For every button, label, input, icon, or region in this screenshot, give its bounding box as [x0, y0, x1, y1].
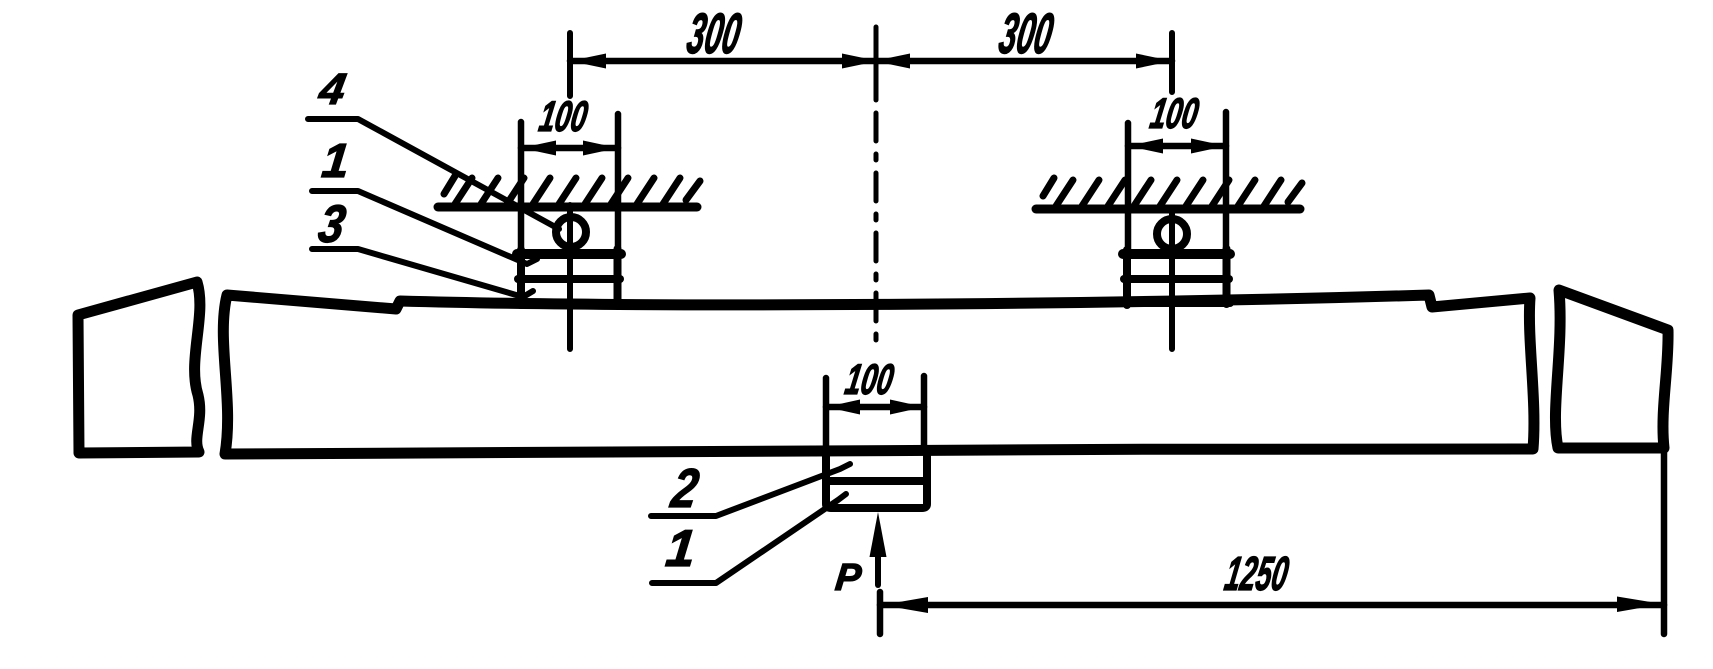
svg-text:100: 100 [536, 93, 591, 141]
dimension 1250 left tick [877, 592, 884, 634]
svg-text:100: 100 [842, 356, 897, 404]
svg-text:P: P [833, 557, 863, 599]
beam right broken-off piece [1555, 290, 1668, 448]
label 1 bottom underline and leader to bottom plate [652, 494, 846, 583]
right support hatching [1043, 178, 1302, 206]
bottom 100 extension lines [826, 376, 924, 447]
dimension 300 left arrowheads [570, 54, 878, 69]
label 2 underline and leader to bottom pad [651, 464, 850, 516]
left support ground line [438, 203, 697, 212]
svg-text:100: 100 [1147, 90, 1202, 138]
dimension 300 right line [876, 58, 1172, 65]
dimension 1250 arrowheads [882, 597, 1663, 614]
right roller [1157, 219, 1187, 249]
label 4 underline and leader to roller [308, 119, 559, 229]
svg-text:1: 1 [320, 134, 352, 188]
dimension 1250 line [880, 602, 1664, 609]
right pad 100 arrowheads [1128, 139, 1226, 154]
left support centerline [567, 33, 573, 349]
left support hatching [444, 176, 700, 204]
svg-text:1250: 1250 [1221, 547, 1293, 601]
beam left broken-off piece [78, 282, 200, 453]
left pad plates [517, 249, 621, 305]
right pad plates [1123, 249, 1230, 305]
right support ground line [1036, 205, 1300, 214]
right support centerline [1169, 33, 1175, 349]
bottom 100 arrowheads [826, 400, 924, 415]
label 1 underline and leader to pad [312, 191, 537, 264]
bottom pad outline [826, 449, 927, 508]
left roller [556, 217, 586, 247]
main beam body [223, 295, 1534, 454]
center axis dash-dot line [874, 27, 879, 100]
left pad 100 arrowheads [521, 141, 618, 156]
bottom 100 dimension line [826, 404, 924, 411]
left pad 100 dimension line [521, 145, 618, 152]
force P arrowhead [870, 512, 887, 557]
right pad 100 extension lines [1128, 112, 1226, 250]
bottom pad divider [827, 477, 927, 485]
label 3 underline and leader to beam [312, 249, 533, 297]
right pad 100 dimension line [1128, 143, 1226, 150]
dimension 300 right arrowheads [874, 54, 1172, 69]
svg-text:1: 1 [663, 520, 698, 578]
dimension 300 left line [570, 58, 876, 65]
force P arrow shaft [875, 552, 881, 585]
dimension 1250 right extension line [1661, 452, 1668, 634]
left pad 100 extension lines [521, 114, 618, 250]
